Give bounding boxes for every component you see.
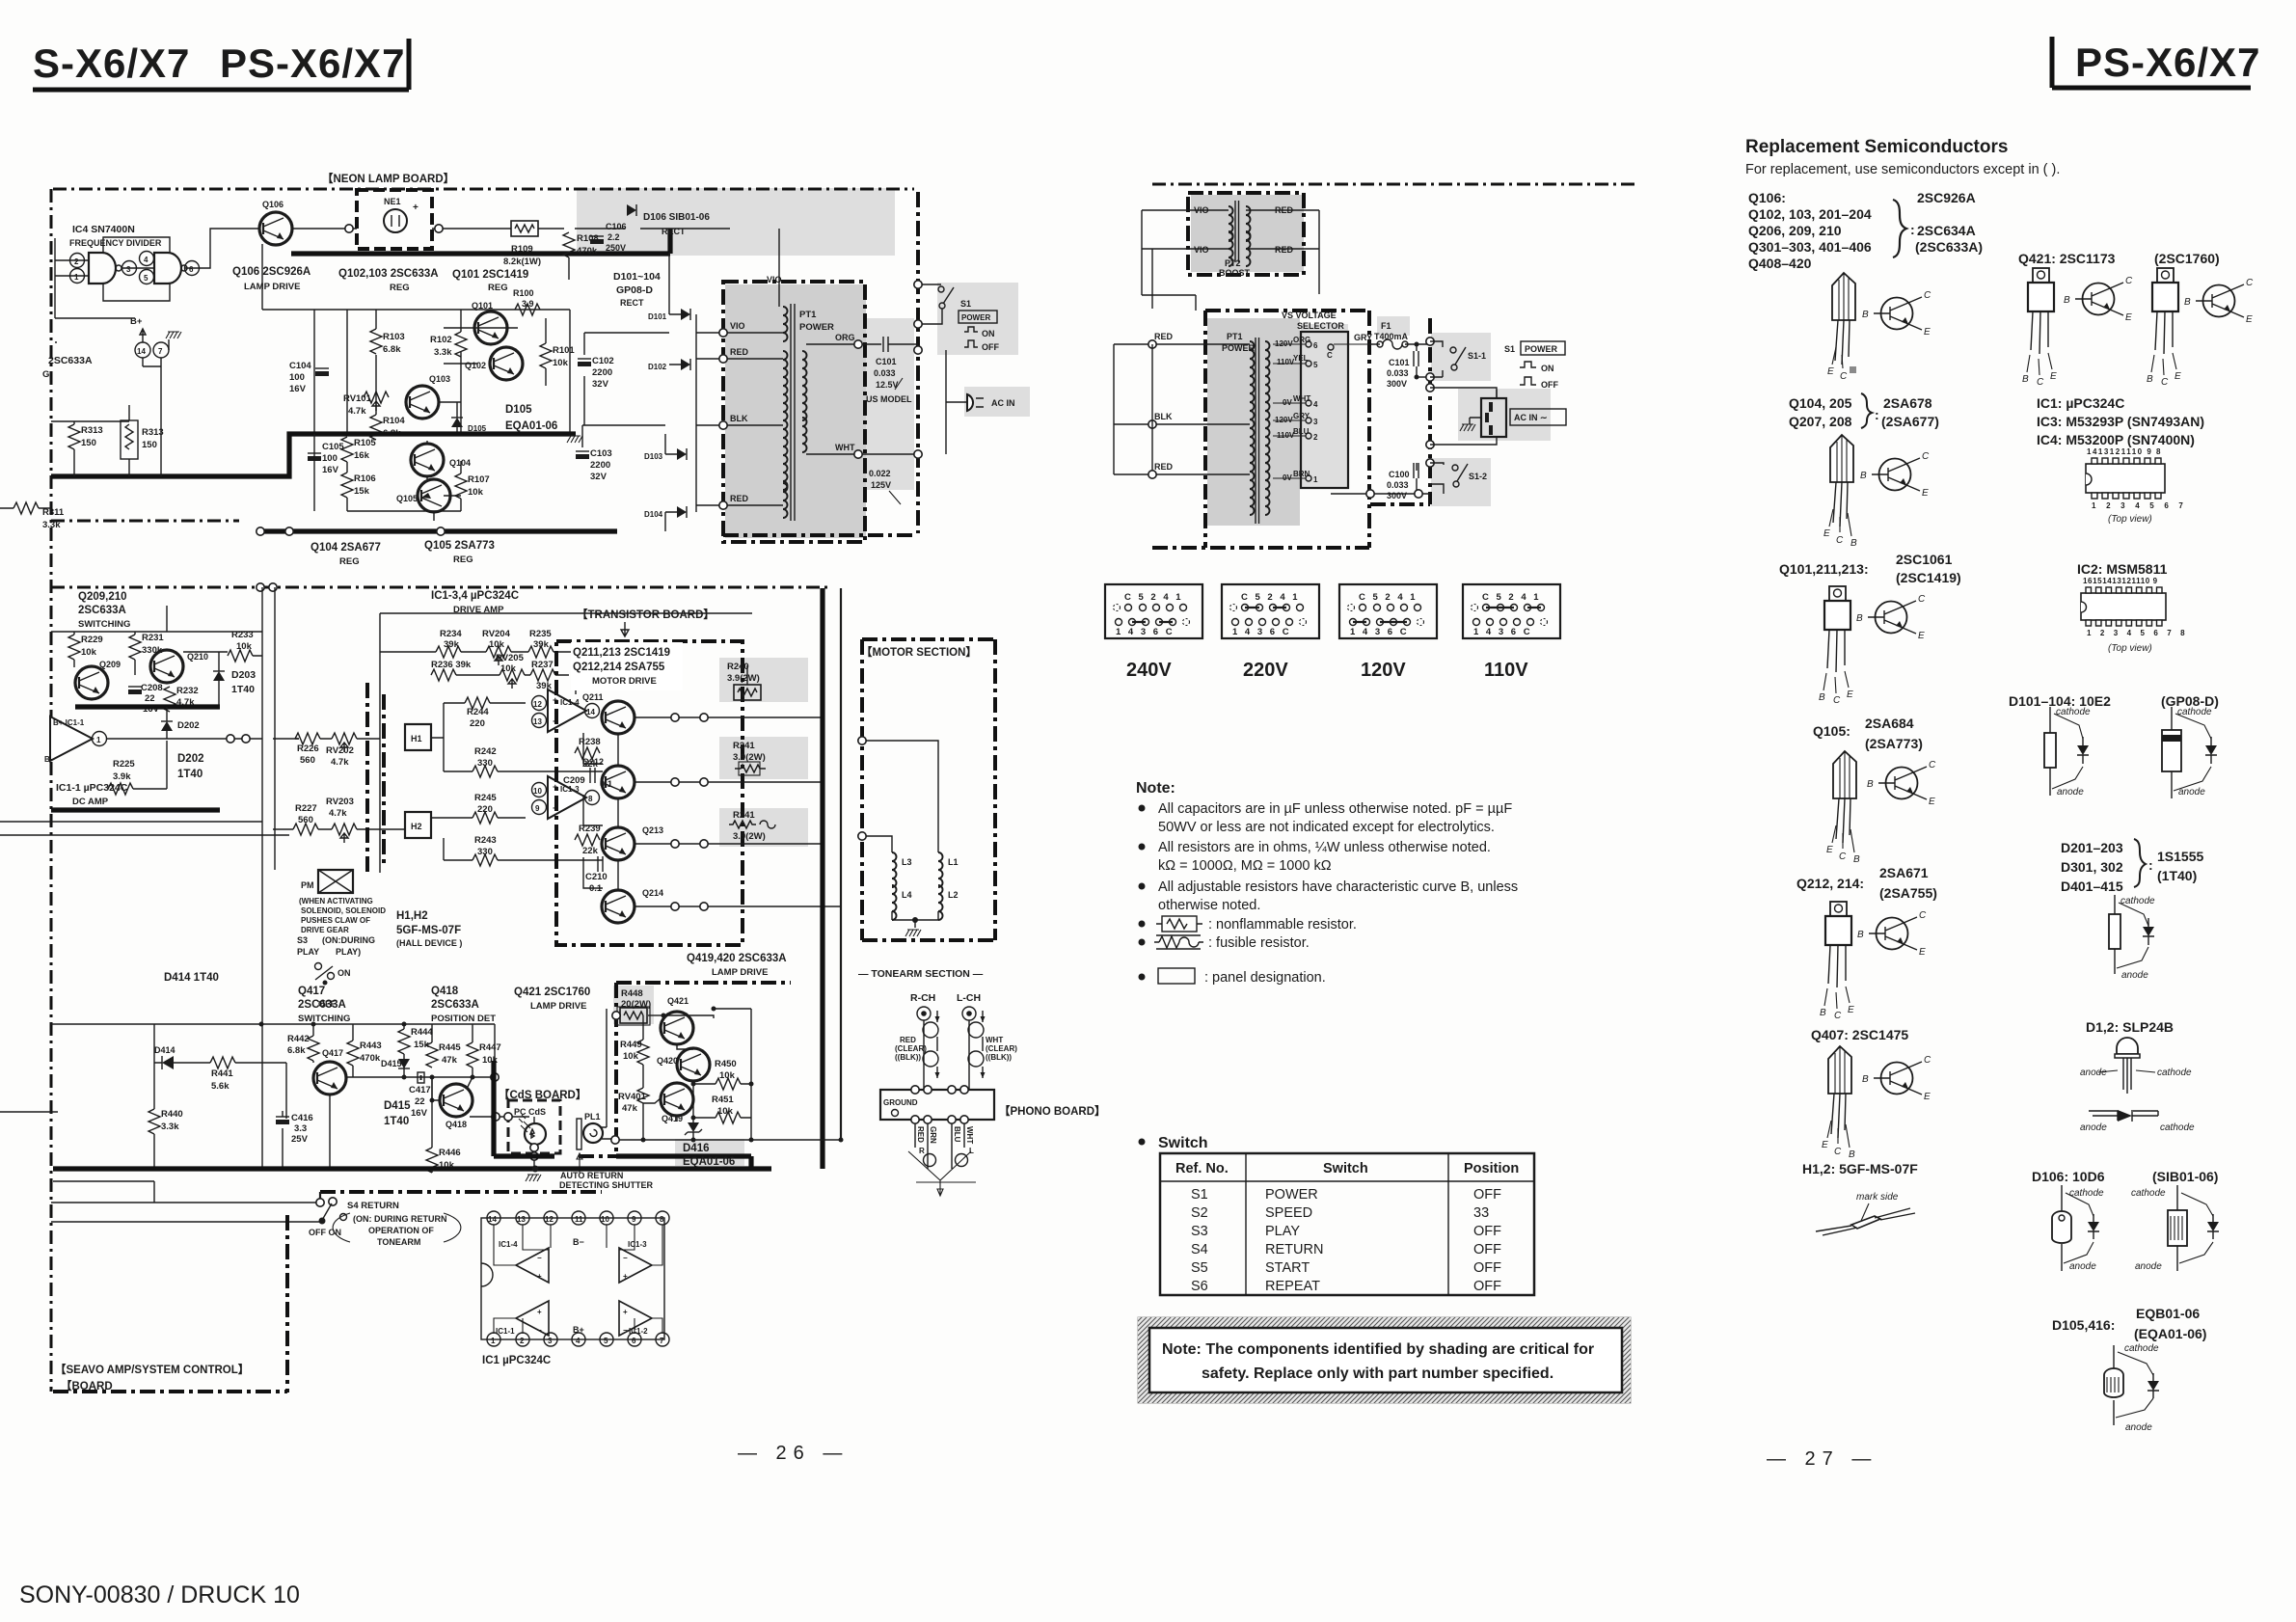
transistor Q103 xyxy=(406,374,450,419)
heavy verticals xyxy=(820,588,824,1169)
PT2 dashed box xyxy=(1188,193,1304,275)
svg-text:−: − xyxy=(537,1254,542,1262)
svg-text:C 5 2 4 1: C 5 2 4 1 xyxy=(1241,592,1300,603)
shaded resistor R240 region xyxy=(719,658,808,702)
svg-text:1 2 3 4 5 6 7 8: 1 2 3 4 5 6 7 8 xyxy=(2087,629,2188,637)
transistor board border dashed xyxy=(556,641,743,945)
svg-text:RED: RED xyxy=(916,1126,925,1143)
svg-text:SPEED: SPEED xyxy=(1265,1205,1312,1221)
PT1 core xyxy=(1256,338,1259,524)
potentiometer RV202 xyxy=(326,733,380,768)
svg-text:(2SC1419): (2SC1419) xyxy=(1896,570,1961,585)
svg-text:D202: D202 xyxy=(177,720,200,731)
svg-text:PC CdS: PC CdS xyxy=(514,1107,546,1117)
transistor Q212 xyxy=(582,757,635,798)
svg-text:D415: D415 xyxy=(384,1100,411,1112)
svg-text:: nonflammable resistor.: : nonflammable resistor. xyxy=(1208,917,1357,933)
fuse F1 xyxy=(1369,321,1430,349)
resistor R444 xyxy=(398,1027,433,1077)
svg-text:Q419,420 2SC633A: Q419,420 2SC633A xyxy=(687,953,787,964)
PT2 primary xyxy=(1229,206,1233,266)
svg-text:12.5V: 12.5V xyxy=(876,380,899,390)
svg-text:R105: R105 xyxy=(354,438,376,448)
svg-text:DRIVE AMP: DRIVE AMP xyxy=(453,605,504,615)
svg-text:S-X6/X7: S-X6/X7 xyxy=(33,41,190,86)
svg-text:2SC633A: 2SC633A xyxy=(48,355,93,366)
tap RED xyxy=(719,347,783,363)
diode D102 xyxy=(648,359,690,371)
svg-text:LAMP DRIVE: LAMP DRIVE xyxy=(530,1001,586,1012)
svg-text:H1: H1 xyxy=(411,734,422,743)
TO-92 package Q106 xyxy=(1827,273,1856,382)
svg-text:VS VOLTAGE: VS VOLTAGE xyxy=(1282,311,1337,320)
svg-text:ON: ON xyxy=(1541,364,1554,373)
svg-text:Note:: Note: xyxy=(1136,780,1175,797)
safety note box xyxy=(1138,1317,1631,1403)
convergence wires xyxy=(908,1151,976,1196)
svg-text:OFF: OFF xyxy=(1473,1224,1501,1239)
svg-text:13: 13 xyxy=(517,1215,526,1224)
svg-text:120V: 120V xyxy=(1361,660,1406,681)
svg-text:POWER: POWER xyxy=(961,313,990,322)
svg-text:E: E xyxy=(1823,528,1830,539)
svg-text:C 5 2 4 1: C 5 2 4 1 xyxy=(1482,592,1541,603)
svg-text:IC1-3: IC1-3 xyxy=(560,785,580,794)
resistor R447 xyxy=(467,1042,501,1077)
potentiometer RV205 xyxy=(496,653,525,689)
svg-text:MOTOR DRIVE: MOTOR DRIVE xyxy=(592,676,657,687)
svg-text:3: 3 xyxy=(548,1337,553,1345)
svg-text:OFF: OFF xyxy=(982,342,999,352)
svg-text:DC AMP: DC AMP xyxy=(72,797,109,807)
svg-text:EQA01-06: EQA01-06 xyxy=(683,1156,735,1168)
svg-text:LAMP DRIVE: LAMP DRIVE xyxy=(244,282,300,292)
neon lamp board box xyxy=(357,190,432,249)
svg-text:PLAY: PLAY xyxy=(297,947,319,957)
svg-text:2SC633A: 2SC633A xyxy=(431,999,479,1011)
svg-text:L-CH: L-CH xyxy=(957,992,981,1004)
svg-text:T400mA: T400mA xyxy=(1374,332,1409,341)
svg-text:Q417: Q417 xyxy=(298,986,325,997)
svg-text:OFF: OFF xyxy=(1473,1242,1501,1257)
phono wire labels xyxy=(916,1126,974,1144)
svg-text:0.033: 0.033 xyxy=(1387,480,1409,490)
IC1-2 amp xyxy=(619,1301,662,1336)
svg-text:Q207, 208: Q207, 208 xyxy=(1789,414,1852,429)
potentiometer RV101 xyxy=(343,392,389,417)
switch S1 xyxy=(914,281,954,328)
svg-text:【NEON LAMP BOARD】: 【NEON LAMP BOARD】 xyxy=(322,173,454,185)
pin 14 xyxy=(135,342,150,358)
svg-text:R240: R240 xyxy=(727,662,749,672)
svg-text:RECT: RECT xyxy=(620,298,644,308)
PHONO board box xyxy=(880,1090,994,1120)
svg-text:VIO: VIO xyxy=(1194,245,1209,255)
svg-text:VIO: VIO xyxy=(730,321,745,331)
svg-text:All capacitors are in µF unles: All capacitors are in µF unless otherwis… xyxy=(1158,801,1512,817)
svg-text:Position: Position xyxy=(1464,1161,1519,1176)
svg-text:PS-X6/X7: PS-X6/X7 xyxy=(220,41,405,86)
resistor R240 xyxy=(727,662,761,700)
svg-text:OFF: OFF xyxy=(1473,1279,1501,1294)
diode D202 xyxy=(161,707,200,739)
svg-text:Q101: Q101 xyxy=(472,301,493,311)
svg-text:SONY-00830 / DRUCK 10: SONY-00830 / DRUCK 10 xyxy=(19,1581,300,1608)
svg-text:220: 220 xyxy=(470,718,485,729)
svg-text:WHT: WHT xyxy=(965,1126,974,1144)
svg-text:POWER: POWER xyxy=(1265,1187,1318,1203)
svg-text:R241: R241 xyxy=(733,741,755,751)
resistor R107 xyxy=(455,461,490,511)
svg-text:C 5 2 4 1: C 5 2 4 1 xyxy=(1359,592,1418,603)
resistor R245 xyxy=(431,793,526,824)
svg-text:125V: 125V xyxy=(871,480,891,490)
svg-text:EQB01-06: EQB01-06 xyxy=(2136,1306,2200,1321)
svg-text:Q211: Q211 xyxy=(582,692,604,702)
svg-text:2SC1061: 2SC1061 xyxy=(1896,552,1953,567)
svg-text:R227: R227 xyxy=(295,803,317,814)
resistor R229 xyxy=(68,635,103,667)
shaded region D416 xyxy=(675,1139,744,1166)
wires R313 xyxy=(51,405,129,476)
svg-text:R235: R235 xyxy=(529,629,552,639)
svg-text:OFF: OFF xyxy=(1541,380,1558,390)
svg-text:cathode: cathode xyxy=(2157,1068,2192,1078)
svg-text:L: L xyxy=(969,1147,974,1155)
svg-text:All adjustable resistors have: All adjustable resistors have characteri… xyxy=(1158,879,1518,895)
top rail xyxy=(51,1024,495,1042)
TO-220 package Q421b xyxy=(2147,268,2181,388)
svg-text:8: 8 xyxy=(660,1215,664,1224)
svg-text:4.7k: 4.7k xyxy=(348,406,366,417)
potentiometer RV204 xyxy=(482,629,511,665)
svg-text:S3: S3 xyxy=(297,935,308,945)
AC plug xyxy=(914,346,1015,458)
svg-text:5: 5 xyxy=(604,1337,608,1345)
svg-text:C103: C103 xyxy=(590,448,612,459)
axial diode 10E2 xyxy=(2044,707,2091,797)
tap WHT xyxy=(806,443,918,458)
hall device 5GF-MS-07F xyxy=(1816,1192,1915,1235)
svg-text:(WHEN ACTIVATING: (WHEN ACTIVATING xyxy=(299,897,373,906)
svg-text:0.022: 0.022 xyxy=(869,469,891,478)
svg-text:【PHONO BOARD】: 【PHONO BOARD】 xyxy=(999,1105,1106,1118)
connector 110V xyxy=(1463,584,1560,681)
svg-text:100: 100 xyxy=(322,453,338,464)
DIP-14 package xyxy=(2086,447,2187,525)
svg-text:(ON: DURING RETURN: (ON: DURING RETURN xyxy=(353,1214,447,1224)
svg-text:5: 5 xyxy=(1313,361,1318,369)
svg-text:16V: 16V xyxy=(322,465,339,475)
transistor symbol Q106 xyxy=(1862,290,1931,338)
IC1 pin 14 xyxy=(487,1211,500,1225)
bridge wiring xyxy=(582,253,723,531)
svg-text:3.3: 3.3 xyxy=(294,1123,307,1134)
VS pins xyxy=(1306,341,1318,350)
svg-text:Q209,210: Q209,210 xyxy=(78,591,127,603)
resistor R231 xyxy=(129,633,164,675)
svg-text:−: − xyxy=(537,1326,542,1335)
svg-text:IC1: µPC324C: IC1: µPC324C xyxy=(2037,395,2124,411)
svg-text:D401–415: D401–415 xyxy=(2061,879,2123,894)
svg-text:C: C xyxy=(2037,377,2044,388)
IC1 pin 4 xyxy=(572,1333,585,1346)
svg-text:C417: C417 xyxy=(409,1085,431,1095)
svg-text:6: 6 xyxy=(189,265,194,274)
solenoid PM xyxy=(301,870,353,893)
switch S1-1 xyxy=(1426,338,1486,381)
svg-text:R231: R231 xyxy=(142,633,164,643)
svg-text:ORG: ORG xyxy=(1293,336,1310,344)
svg-text:(2SC633A): (2SC633A) xyxy=(1915,239,1983,255)
svg-text:E: E xyxy=(1847,689,1853,700)
note bullet 1 xyxy=(1139,805,1146,812)
svg-text:9: 9 xyxy=(535,804,540,813)
ground xyxy=(526,1175,541,1181)
svg-text:: fusible resistor.: : fusible resistor. xyxy=(1208,935,1310,951)
svg-text:L1: L1 xyxy=(948,857,959,867)
svg-text:Q105:: Q105: xyxy=(1813,723,1850,739)
resistor R313 xyxy=(68,424,103,449)
svg-text:Q211,213 2SC1419: Q211,213 2SC1419 xyxy=(573,647,670,659)
junction xyxy=(345,225,353,232)
resistor R103 xyxy=(370,329,405,355)
svg-text:470k: 470k xyxy=(360,1053,381,1064)
capacitor C417 xyxy=(409,1072,431,1119)
svg-text:R236 39k: R236 39k xyxy=(431,660,472,670)
svg-text:cathode: cathode xyxy=(2069,1188,2104,1199)
svg-text:16k: 16k xyxy=(354,450,370,461)
svg-text:D102: D102 xyxy=(648,363,667,371)
heavy CdS border xyxy=(494,1061,554,1156)
svg-text:WHT: WHT xyxy=(835,443,855,452)
svg-text:+: + xyxy=(537,1272,542,1281)
resistor R233 xyxy=(183,630,262,662)
connector 240V xyxy=(1105,584,1202,681)
svg-text:RV101: RV101 xyxy=(343,393,372,404)
shaded PT1 main xyxy=(1207,318,1300,526)
svg-text:Q103: Q103 xyxy=(429,374,450,384)
board divider dash-dot xyxy=(51,586,829,589)
transistor Q105 xyxy=(396,479,450,512)
shaded S1-2 xyxy=(1431,458,1491,506)
svg-text:Q421 2SC1760: Q421 2SC1760 xyxy=(514,987,590,998)
svg-text:Q212, 214:: Q212, 214: xyxy=(1796,876,1864,891)
svg-text:R444: R444 xyxy=(411,1027,433,1038)
svg-text:C 5 2 4 1: C 5 2 4 1 xyxy=(1124,592,1183,603)
board border top dash-dot xyxy=(53,188,914,191)
diode symbol D1,2 xyxy=(2080,1110,2195,1133)
svg-text:Q105: Q105 xyxy=(396,494,418,503)
svg-text:2: 2 xyxy=(74,257,79,266)
power transformer enclosure dashed xyxy=(723,282,865,542)
svg-text:REG: REG xyxy=(339,556,360,567)
svg-text:Q105 2SA773: Q105 2SA773 xyxy=(424,540,495,552)
IC1 pin 13 xyxy=(516,1211,529,1225)
shaded region C101 column xyxy=(866,318,914,490)
svg-text:cathode: cathode xyxy=(2056,707,2091,717)
svg-text:E: E xyxy=(1826,845,1833,855)
transistor symbol Q421b xyxy=(2184,278,2254,325)
TO-92 package Q104 xyxy=(1823,435,1857,549)
potentiometer RV401 xyxy=(618,1088,662,1140)
svg-text:All resistors are in ohms, ¼W: All resistors are in ohms, ¼W unless oth… xyxy=(1158,840,1491,855)
pin 4 xyxy=(140,252,154,266)
tap RED2 xyxy=(719,494,783,509)
svg-text:【TRANSISTOR BOARD】: 【TRANSISTOR BOARD】 xyxy=(577,608,715,621)
resistor R239 + C210 xyxy=(575,824,608,894)
svg-text:R245: R245 xyxy=(474,793,497,803)
PT2 wires xyxy=(1142,210,1319,309)
svg-text:D106 SIB01-06: D106 SIB01-06 xyxy=(643,212,710,223)
svg-text:300V: 300V xyxy=(1387,491,1407,500)
resistor R311 xyxy=(0,502,65,530)
svg-text:— 26 —: — 26 — xyxy=(738,1443,849,1464)
lamp PL1 xyxy=(583,1112,603,1143)
svg-text:IC1-1: IC1-1 xyxy=(496,1327,515,1336)
drive amp border xyxy=(380,613,752,873)
svg-text:10: 10 xyxy=(533,787,542,796)
svg-text:((BLK)): ((BLK)) xyxy=(895,1053,921,1062)
svg-text:6: 6 xyxy=(1313,341,1318,350)
left entry wires xyxy=(1114,295,1196,474)
svg-text:S4: S4 xyxy=(1191,1242,1208,1257)
motor coil L2 xyxy=(938,885,959,920)
svg-text:1 4 3 6 C: 1 4 3 6 C xyxy=(1473,627,1532,637)
bottom wire xyxy=(1331,493,1430,495)
svg-text:C: C xyxy=(1834,1011,1842,1021)
transistor Q210 xyxy=(150,650,208,683)
IC1 pin 11 xyxy=(572,1211,585,1225)
svg-text:100: 100 xyxy=(289,372,305,383)
svg-text:PS-X6/X7: PS-X6/X7 xyxy=(2075,40,2260,85)
svg-text:1: 1 xyxy=(96,736,101,744)
TO-220 package Q421a xyxy=(2022,268,2057,388)
svg-text:IC1-3,4 µPC324C: IC1-3,4 µPC324C xyxy=(431,590,519,602)
transistor Q101 xyxy=(472,301,507,344)
svg-text:R441: R441 xyxy=(211,1068,233,1079)
svg-text:12: 12 xyxy=(545,1215,554,1224)
IC1 pin 10 xyxy=(600,1211,613,1225)
svg-text:L2: L2 xyxy=(948,890,959,900)
shaded region S1 legend xyxy=(937,283,1018,355)
svg-text:E: E xyxy=(1827,366,1834,377)
svg-text:1T40: 1T40 xyxy=(384,1116,409,1127)
svg-text:10k: 10k xyxy=(81,647,97,658)
svg-text:PM: PM xyxy=(301,880,314,890)
op-amp IC1-3 xyxy=(532,776,600,819)
svg-text:VIO: VIO xyxy=(767,275,782,284)
svg-text:Q104: Q104 xyxy=(449,458,471,468)
svg-text:5: 5 xyxy=(144,274,149,283)
board bottom-left dashed xyxy=(51,520,239,523)
board border left dash-dot xyxy=(50,189,53,1392)
capacitor C101b xyxy=(1387,344,1430,389)
ground xyxy=(905,930,921,936)
power board bottom dashed xyxy=(723,533,916,537)
svg-text:C: C xyxy=(1836,535,1844,546)
svg-text:1: 1 xyxy=(491,1337,496,1345)
svg-text:16151413121110 9: 16151413121110 9 xyxy=(2083,577,2158,585)
svg-text:22k: 22k xyxy=(582,846,599,856)
resistor R109 (nonflammable) xyxy=(503,221,541,267)
svg-text:Ref. No.: Ref. No. xyxy=(1175,1161,1229,1176)
resistor R232 xyxy=(164,686,199,712)
svg-text:Q212: Q212 xyxy=(582,757,604,767)
motor drive part label xyxy=(571,642,683,690)
neon lamp NE1 xyxy=(384,197,419,232)
svg-text:IC1-4: IC1-4 xyxy=(560,698,580,707)
svg-text:R226: R226 xyxy=(297,743,319,754)
resistor R101 xyxy=(540,318,575,386)
svg-text:1413121110 9 8: 1413121110 9 8 xyxy=(2087,447,2162,456)
svg-text:16V: 16V xyxy=(289,384,307,394)
svg-text:C102: C102 xyxy=(592,356,614,366)
svg-text:BLK: BLK xyxy=(1154,412,1173,421)
svg-text:3.9(2W): 3.9(2W) xyxy=(733,831,766,842)
svg-text:R442: R442 xyxy=(287,1034,310,1044)
transistor Q419 xyxy=(661,1083,693,1123)
svg-text:150: 150 xyxy=(142,440,157,450)
tonearm R wires xyxy=(917,1007,940,1090)
bottom rail xyxy=(260,528,617,533)
svg-text:B+ IC1-1: B+ IC1-1 xyxy=(53,718,85,727)
svg-text:C100: C100 xyxy=(1389,470,1410,479)
svg-text:IC2: MSM5811: IC2: MSM5811 xyxy=(2077,561,2168,577)
transformer PT1 core xyxy=(791,304,795,521)
svg-text:RV205: RV205 xyxy=(496,653,525,663)
transistor Q104 xyxy=(411,444,471,476)
phono pins xyxy=(911,1086,919,1094)
svg-text:R450: R450 xyxy=(715,1059,737,1069)
svg-text:H2: H2 xyxy=(411,822,422,831)
emitter rails xyxy=(583,717,841,906)
svg-text:Switch: Switch xyxy=(1323,1161,1368,1176)
svg-text:R106: R106 xyxy=(354,473,376,484)
tap ORG xyxy=(806,333,881,348)
transistor Q214 xyxy=(602,888,663,923)
resistor R236 xyxy=(431,660,472,681)
svg-text:Q301–303, 401–406: Q301–303, 401–406 xyxy=(1748,239,1872,255)
svg-text:anode: anode xyxy=(2178,787,2205,797)
resistor R106 xyxy=(341,462,376,511)
svg-text:anode: anode xyxy=(2121,970,2148,981)
svg-text:560: 560 xyxy=(300,755,315,766)
svg-text:7: 7 xyxy=(660,1337,664,1345)
svg-text:10k: 10k xyxy=(468,487,484,498)
svg-text:0.033: 0.033 xyxy=(1387,368,1409,378)
S4 heavy dashed border xyxy=(320,1190,602,1194)
svg-text:15k: 15k xyxy=(354,486,370,497)
TO-92 package Q105 xyxy=(1826,751,1860,865)
svg-text:5GF-MS-07F: 5GF-MS-07F xyxy=(396,925,461,936)
svg-text:Q101 2SC1419: Q101 2SC1419 xyxy=(452,269,528,281)
svg-text:R100: R100 xyxy=(513,288,534,298)
B+ arrow xyxy=(130,316,146,342)
svg-text:7: 7 xyxy=(158,347,163,356)
svg-text:14: 14 xyxy=(586,708,595,716)
svg-text:1T40: 1T40 xyxy=(231,684,255,695)
svg-text:IC1-1 µPC324C: IC1-1 µPC324C xyxy=(56,782,128,794)
svg-text:E: E xyxy=(2050,371,2057,382)
resistor R108 xyxy=(563,232,599,280)
wire node line xyxy=(107,738,299,740)
diode D103 xyxy=(644,448,687,461)
svg-text:Q418: Q418 xyxy=(431,986,459,997)
svg-text:S5: S5 xyxy=(1191,1260,1208,1276)
svg-text:(HALL DEVICE ): (HALL DEVICE ) xyxy=(396,938,462,948)
shaded region AC IN xyxy=(964,387,1030,417)
